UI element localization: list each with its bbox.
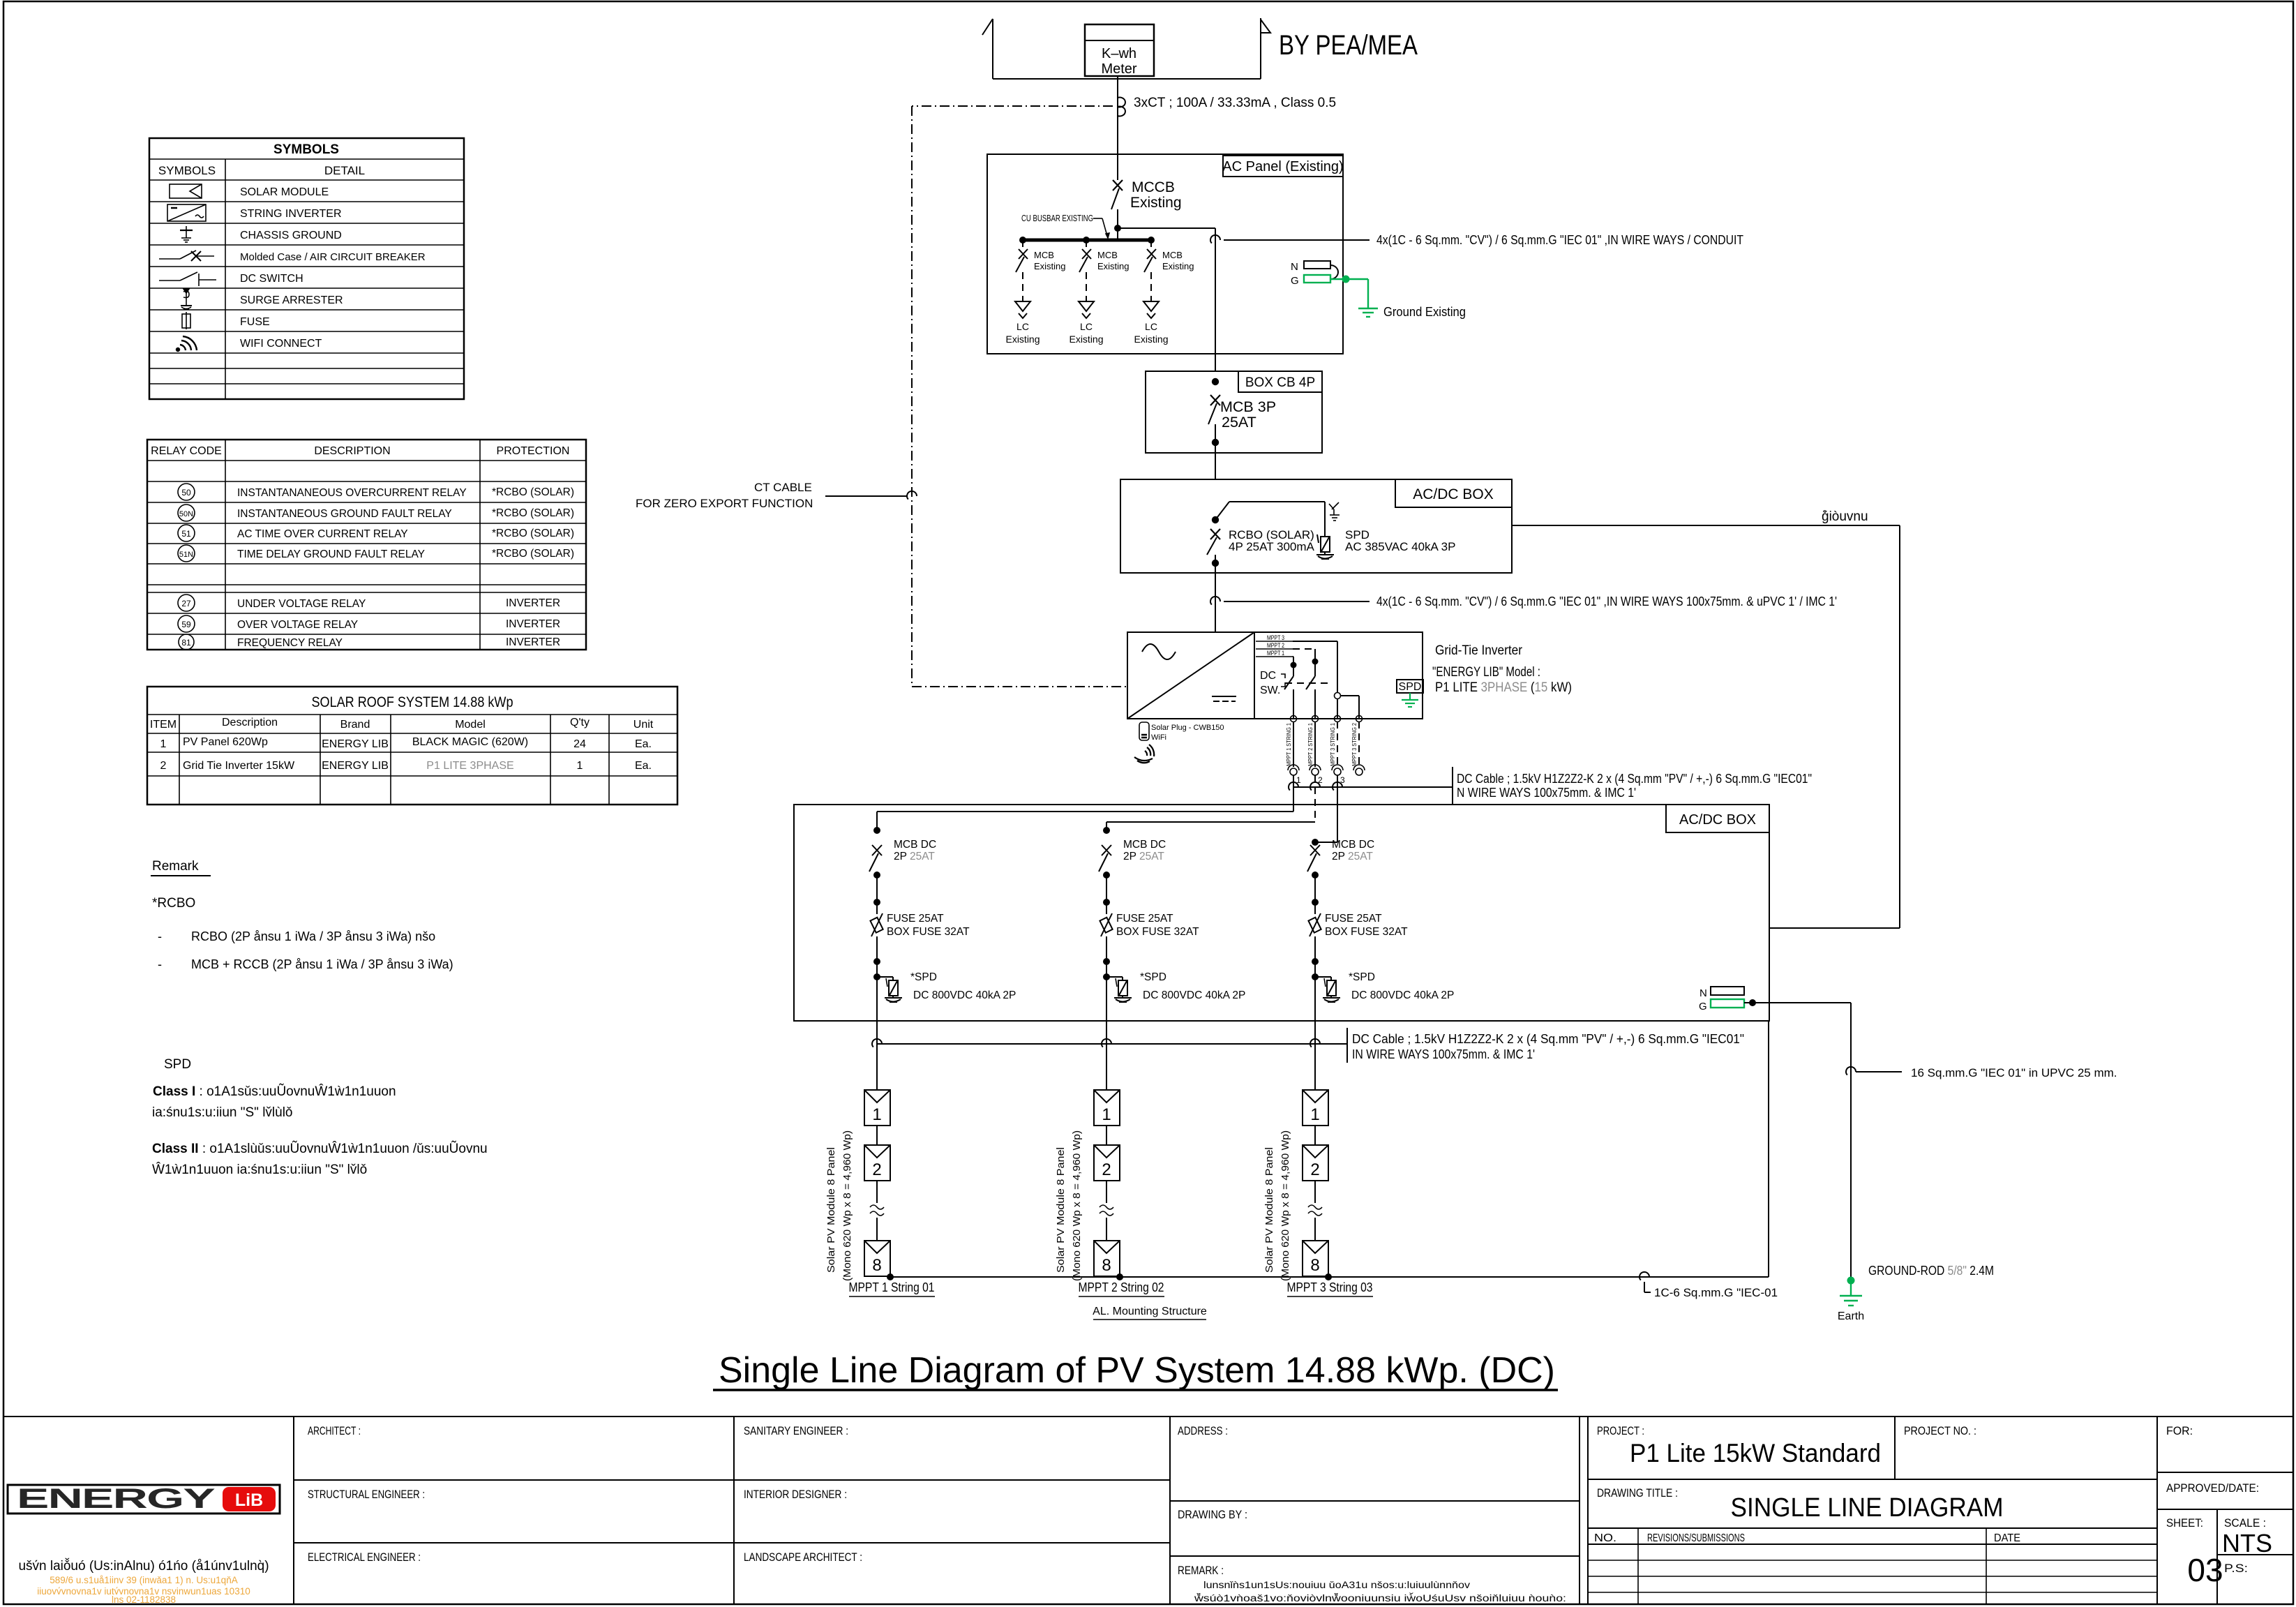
svg-text:G: G bbox=[1699, 1001, 1707, 1012]
module 8 bbox=[864, 1241, 890, 1276]
inverter diagonal bbox=[1127, 632, 1254, 719]
svg-text:INVERTER: INVERTER bbox=[506, 597, 560, 609]
svg-text:MPPT 3 STRING 1: MPPT 3 STRING 1 bbox=[1329, 723, 1336, 766]
svg-text:MCB DC: MCB DC bbox=[894, 839, 936, 851]
svg-text:SURGE ARRESTER: SURGE ARRESTER bbox=[240, 294, 343, 306]
svg-text:AC/DC BOX: AC/DC BOX bbox=[1413, 486, 1494, 502]
svg-text:G: G bbox=[1291, 275, 1299, 287]
svg-text:RCBO (2P ånsu 1 iWa / 3P åns: RCBO (2P ånsu 1 iWa / 3P ånsu 3 iWa) n… bbox=[191, 929, 435, 943]
svg-text:8: 8 bbox=[872, 1256, 881, 1275]
fuse FUSE 25AT / BOX FUSE 32AT string 3 bbox=[1310, 913, 1321, 936]
svg-text:DC 800VDC 40kA 2P: DC 800VDC 40kA 2P bbox=[1143, 989, 1245, 1001]
green node on panel edge bbox=[1342, 276, 1350, 283]
wire bbox=[876, 875, 878, 902]
svg-text:MPPT 1 String 01: MPPT 1 String 01 bbox=[849, 1280, 935, 1294]
svg-text:Ea.: Ea. bbox=[635, 738, 652, 750]
inverter SPD ground (green) bbox=[1402, 693, 1418, 707]
svg-text:*SPD: *SPD bbox=[1349, 971, 1375, 983]
svg-text:24: 24 bbox=[573, 738, 586, 750]
svg-text:DATE: DATE bbox=[1994, 1532, 2020, 1544]
svg-text:Solar PV Module 8 Panel: Solar PV Module 8 Panel bbox=[825, 1147, 837, 1273]
svg-text:25AT: 25AT bbox=[1222, 414, 1256, 431]
svg-text:ITEM: ITEM bbox=[150, 719, 177, 731]
svg-text:Existing: Existing bbox=[1097, 261, 1130, 271]
surge arrester *SPD DC 800VDC 40kA 2P string 3 bbox=[1312, 973, 1319, 980]
svg-text:ẘ̌súò1vǹoaš1vo:ňoviòvln: ẘ̌súò1vǹoaš1vo:ňoviòvlnẘ̌ooniuun… bbox=[1194, 1592, 1566, 1604]
svg-text:Existing: Existing bbox=[1162, 261, 1194, 271]
node below MCB DC string 1 bbox=[873, 872, 880, 879]
MPPT3 internal wire bbox=[1293, 641, 1337, 719]
svg-text:MPPT 1 STRING 1: MPPT 1 STRING 1 bbox=[1285, 723, 1292, 766]
inverter bottom terminals bbox=[1291, 716, 1297, 722]
MPPT1 internal wire bbox=[1284, 657, 1297, 719]
CT cable leader bbox=[825, 491, 917, 500]
BOX CB 4P box bbox=[1146, 371, 1322, 453]
svg-text:MCB DC: MCB DC bbox=[1332, 839, 1374, 851]
PV earth label leader bbox=[1640, 1272, 1651, 1292]
string field wiring 3 bbox=[1315, 775, 1337, 844]
svg-text:INSTANTANANEOUS OVERCURRENT RE: INSTANTANANEOUS OVERCURRENT RELAY bbox=[237, 487, 467, 499]
svg-text:DRAWING TITLE :: DRAWING TITLE : bbox=[1597, 1486, 1678, 1500]
symbol: surge arrester icon bbox=[181, 289, 192, 309]
svg-text:SHEET:: SHEET: bbox=[2166, 1516, 2203, 1530]
svg-text:AL. Mounting Structure: AL. Mounting Structure bbox=[1093, 1306, 1207, 1317]
svg-text:-: - bbox=[158, 929, 162, 943]
svg-text:UNDER VOLTAGE RELAY: UNDER VOLTAGE RELAY bbox=[237, 598, 366, 610]
svg-text:Existing: Existing bbox=[1069, 334, 1103, 345]
svg-text:OVER VOLTAGE RELAY: OVER VOLTAGE RELAY bbox=[237, 619, 358, 631]
svg-text:STRING INVERTER: STRING INVERTER bbox=[240, 208, 342, 220]
svg-text:LiB: LiB bbox=[235, 1490, 263, 1510]
svg-text:Brand: Brand bbox=[340, 719, 370, 731]
svg-text:BOX FUSE 32AT: BOX FUSE 32AT bbox=[1116, 926, 1199, 938]
svg-text:(Mono 620 Wp x 8 = 4,960 Wp): (Mono 620 Wp x 8 = 4,960 Wp) bbox=[841, 1130, 853, 1281]
svg-text:DC Cable ; 1.5kV H1Z2Z2-K 2 x: DC Cable ; 1.5kV H1Z2Z2-K 2 x (4 Sq.mm "… bbox=[1457, 772, 1812, 786]
svg-text:LC: LC bbox=[1080, 321, 1093, 332]
svg-text:2: 2 bbox=[872, 1160, 881, 1179]
svg-text:4x(1C - 6 Sq.mm. "CV") / 6 Sq.: 4x(1C - 6 Sq.mm. "CV") / 6 Sq.mm.G "IEC … bbox=[1376, 233, 1743, 247]
N-G bond arc bbox=[1330, 265, 1338, 279]
svg-text:ušv́n laiǒ̌uó (Us:inAlnu) o: ušv́n laiǒ̌uó (Us:inAlnu) ó1ńo (å1… bbox=[18, 1558, 269, 1574]
wire: AC/DC box1 right to DC box (same cabinet) bbox=[1512, 525, 1900, 928]
inverter SPD box bbox=[1397, 680, 1423, 693]
node above fuse string 1 bbox=[873, 899, 880, 906]
svg-text:NTS: NTS bbox=[2222, 1529, 2272, 1557]
svg-text:16 Sq.mm.G "IEC 01" in UPVC 25: 16 Sq.mm.G "IEC 01" in UPVC 25 mm. bbox=[1911, 1066, 2117, 1079]
svg-text:*RCBO (SOLAR): *RCBO (SOLAR) bbox=[492, 486, 574, 498]
wire into string 1 bbox=[876, 1021, 878, 1090]
svg-text:MCB DC: MCB DC bbox=[1123, 839, 1166, 851]
svg-text:DETAIL: DETAIL bbox=[324, 164, 365, 177]
svg-text:FUSE: FUSE bbox=[240, 316, 270, 328]
MCB existing branch 1 bbox=[1005, 240, 1065, 345]
relay 59 bbox=[178, 615, 195, 632]
surge arrester *SPD DC 800VDC 40kA 2P string 2 bbox=[1103, 973, 1110, 980]
svg-text:59: 59 bbox=[181, 620, 191, 629]
svg-text:LC: LC bbox=[1145, 321, 1157, 332]
string field wiring 1 bbox=[877, 775, 1293, 830]
AC panel box bbox=[987, 154, 1343, 354]
symbol: fuse icon bbox=[182, 312, 190, 329]
svg-text:SYMBOLS: SYMBOLS bbox=[158, 164, 216, 177]
svg-text:SPD: SPD bbox=[164, 1057, 191, 1072]
svg-text:MPPT 3 STRING 2: MPPT 3 STRING 2 bbox=[1351, 723, 1358, 766]
svg-text:BOX FUSE 32AT: BOX FUSE 32AT bbox=[1325, 926, 1408, 938]
svg-text:K–wh: K–wh bbox=[1102, 46, 1136, 61]
string field wiring 2 bbox=[1106, 775, 1315, 830]
breaker MCB DC 2P 25AT string 1 bbox=[872, 845, 882, 855]
svg-text:8: 8 bbox=[1310, 1256, 1319, 1275]
svg-text:RELAY CODE: RELAY CODE bbox=[151, 445, 222, 457]
svg-text:Existing: Existing bbox=[1134, 334, 1168, 345]
node in bbox=[1212, 378, 1219, 385]
ground existing wire (green) bbox=[1330, 279, 1378, 317]
relay 50 bbox=[178, 484, 195, 500]
symbol: molded case / air circuit breaker icon bbox=[159, 251, 214, 261]
svg-text:03: 03 bbox=[2187, 1552, 2223, 1588]
symbol: string inverter icon bbox=[167, 204, 206, 221]
svg-text:(Mono 620 Wp x 8 = 4,960 Wp): (Mono 620 Wp x 8 = 4,960 Wp) bbox=[1071, 1130, 1083, 1281]
svg-text:REVISIONS/SUBMISSIONS: REVISIONS/SUBMISSIONS bbox=[1647, 1532, 1745, 1544]
svg-text:Existing: Existing bbox=[1005, 334, 1040, 345]
svg-text:WIFI CONNECT: WIFI CONNECT bbox=[240, 338, 322, 350]
svg-text:SINGLE LINE DIAGRAM: SINGLE LINE DIAGRAM bbox=[1731, 1493, 2004, 1523]
svg-text:ARCHITECT :: ARCHITECT : bbox=[308, 1424, 361, 1437]
svg-text:lns 02-1182838: lns 02-1182838 bbox=[112, 1594, 176, 1605]
G terminal block (DC box) bbox=[1699, 999, 1744, 1012]
svg-text:2P 25AT: 2P 25AT bbox=[894, 851, 935, 862]
svg-text:CHASSIS GROUND: CHASSIS GROUND bbox=[240, 230, 342, 241]
svg-text:2P 25AT: 2P 25AT bbox=[1332, 851, 1373, 862]
svg-text:Solar PV Module 8 Panel: Solar PV Module 8 Panel bbox=[1263, 1147, 1275, 1273]
svg-text:81: 81 bbox=[181, 638, 191, 648]
wire: RCBO down to inverter bbox=[1215, 563, 1216, 632]
inverter AC sine bbox=[1142, 644, 1176, 659]
N terminal block (DC box) bbox=[1700, 987, 1744, 999]
svg-text:INTERIOR DESIGNER :: INTERIOR DESIGNER : bbox=[744, 1488, 847, 1501]
svg-text:Single Line Diagram of PV Syst: Single Line Diagram of PV System 14.88 k… bbox=[719, 1350, 1555, 1391]
svg-text:8: 8 bbox=[1102, 1256, 1111, 1275]
breaker MCCB existing bbox=[1111, 180, 1123, 240]
symbol: DC switch icon bbox=[159, 272, 216, 286]
flag arrow left (supply riser) bbox=[982, 19, 993, 79]
svg-text:2: 2 bbox=[160, 760, 167, 772]
node below fuse string 1 bbox=[873, 958, 880, 965]
svg-text:ia:śnu1s:u:iiun "S" lv̌lùlǒ: ia:śnu1s:u:iiun "S" lv̌lùlǒ bbox=[152, 1105, 293, 1120]
module 2 bbox=[864, 1145, 890, 1181]
svg-text:FOR ZERO EXPORT FUNCTION: FOR ZERO EXPORT FUNCTION bbox=[636, 497, 813, 510]
earth node (green) bbox=[1847, 1277, 1855, 1285]
title block grid bbox=[3, 1417, 2293, 1604]
svg-text:1: 1 bbox=[1310, 1105, 1319, 1124]
node: string 3 feed junction bbox=[1312, 839, 1319, 846]
svg-text:2: 2 bbox=[1102, 1160, 1111, 1179]
svg-text:IN WIRE WAYS 100x75mm. & IMC 1: IN WIRE WAYS 100x75mm. & IMC 1' bbox=[1352, 1047, 1535, 1061]
svg-text:SOLAR ROOF SYSTEM 14.88 kWp: SOLAR ROOF SYSTEM 14.88 kWp bbox=[312, 694, 513, 710]
MCB existing branch 2 bbox=[1069, 240, 1129, 345]
svg-text:Ŵ1ẁ1n1uuon ia:śnu1s:u:iiun: Ŵ1ẁ1n1uuon ia:śnu1s:u:iiun "S" lv̌lǒ bbox=[152, 1162, 367, 1177]
symbol: solar module icon bbox=[170, 184, 202, 198]
svg-text:FUSE 25AT: FUSE 25AT bbox=[1325, 913, 1382, 925]
svg-text:PROJECT NO. :: PROJECT NO. : bbox=[1904, 1424, 1976, 1437]
symbol: wifi connect icon bbox=[177, 336, 197, 351]
solar roof system table grid bbox=[147, 687, 677, 805]
svg-text:Remark: Remark bbox=[152, 859, 199, 874]
svg-text:INSTANTANEOUS GROUND FAULT REL: INSTANTANEOUS GROUND FAULT RELAY bbox=[237, 508, 452, 520]
wire: MCCB to BOX CB 4P feeder bbox=[1118, 228, 1215, 371]
svg-text:Earth: Earth bbox=[1838, 1310, 1864, 1322]
svg-text:Class I : o1A1sǔs:uuŨovnuŴ1: Class I : o1A1sǔs:uuŨovnuŴ1ẁ1n1uuon bbox=[153, 1084, 396, 1099]
svg-text:MCB: MCB bbox=[1097, 250, 1118, 260]
svg-text:CT CABLE: CT CABLE bbox=[754, 481, 812, 494]
node at RCBO input bbox=[1212, 516, 1219, 523]
svg-text:MPPT 1: MPPT 1 bbox=[1267, 650, 1284, 657]
MPPT2 internal wire bbox=[1293, 649, 1319, 719]
svg-text:P1 Lite 15kW Standard: P1 Lite 15kW Standard bbox=[1630, 1439, 1881, 1467]
svg-text:Solar PV Module 8 Panel: Solar PV Module 8 Panel bbox=[1055, 1147, 1067, 1273]
svg-text:MPPT 2: MPPT 2 bbox=[1267, 642, 1284, 649]
svg-text:BOX FUSE 32AT: BOX FUSE 32AT bbox=[887, 926, 970, 938]
CU busbar (thick) bbox=[1023, 239, 1151, 242]
svg-text:P1 LITE 3PHASE (15 kW): P1 LITE 3PHASE (15 kW) bbox=[1435, 680, 1572, 695]
AC/DC box 1 bbox=[1120, 479, 1512, 573]
svg-text:(Mono 620 Wp x 8 = 4,960 Wp): (Mono 620 Wp x 8 = 4,960 Wp) bbox=[1280, 1130, 1291, 1281]
svg-text:Q'ty: Q'ty bbox=[570, 717, 590, 728]
RCBO (SOLAR) breaker bbox=[1207, 529, 1220, 563]
N terminal block bbox=[1291, 261, 1330, 273]
svg-text:N WIRE WAYS 100x75mm. & IMC 1': N WIRE WAYS 100x75mm. & IMC 1' bbox=[1457, 786, 1636, 800]
node on G wire bbox=[1749, 999, 1756, 1006]
svg-text:1: 1 bbox=[160, 738, 167, 750]
AC/DC box 2 bbox=[794, 805, 1769, 1021]
ENERGY LIB logo bbox=[8, 1483, 280, 1514]
pigtail MPPT3 STRING 2 (spare) bbox=[1351, 722, 1365, 775]
surge arrester *SPD DC 800VDC 40kA 2P string 1 bbox=[873, 973, 880, 980]
svg-text:BY PEA/MEA: BY PEA/MEA bbox=[1279, 30, 1418, 61]
svg-text:ǧ̊iòuvnu: ǧ̊iòuvnu bbox=[1822, 509, 1868, 524]
DC switch linkage bbox=[1281, 674, 1329, 687]
svg-text:STRUCTURAL ENGINEER :: STRUCTURAL ENGINEER : bbox=[308, 1488, 425, 1501]
svg-text:lunsnǐǹs1un1sUs:nouiuu ǔoA3: lunsnǐǹs1un1sUs:nouiuu ǔoA31u nšos:u… bbox=[1203, 1580, 1470, 1590]
svg-text:Meter: Meter bbox=[1101, 61, 1136, 77]
CT (current transformer) bbox=[1118, 98, 1125, 117]
svg-text:1C-6 Sq.mm.G "IEC-01: 1C-6 Sq.mm.G "IEC-01 bbox=[1654, 1286, 1778, 1299]
svg-text:MPPT 3: MPPT 3 bbox=[1267, 634, 1284, 641]
svg-text:FUSE 25AT: FUSE 25AT bbox=[887, 913, 944, 925]
feeder label leader 1 bbox=[1210, 235, 1370, 244]
break squiggle bbox=[870, 1205, 884, 1209]
svg-text:LC: LC bbox=[1016, 321, 1029, 332]
svg-text:2P 25AT: 2P 25AT bbox=[1123, 851, 1164, 862]
svg-text:3xCT ; 100A / 33.33mA , Class: 3xCT ; 100A / 33.33mA , Class 0.5 bbox=[1134, 96, 1336, 110]
svg-text:N: N bbox=[1700, 987, 1707, 999]
ground conductor label leader bbox=[1846, 1067, 1902, 1075]
svg-text:MPPT 2 STRING 1: MPPT 2 STRING 1 bbox=[1307, 723, 1314, 766]
svg-text:Existing: Existing bbox=[1034, 261, 1066, 271]
svg-text:27: 27 bbox=[181, 599, 191, 608]
svg-text:PROTECTION: PROTECTION bbox=[497, 445, 570, 457]
pigtail MPPT3 STRING 1 bbox=[1329, 722, 1345, 785]
wire: meter down to CT bbox=[1117, 76, 1118, 180]
svg-text:MCCB: MCCB bbox=[1132, 179, 1175, 195]
MCB existing branch 3 bbox=[1134, 240, 1194, 345]
earth symbol (green) bbox=[1840, 1280, 1862, 1306]
svg-text:Molded Case / AIR CIRCUIT BRE: Molded Case / AIR CIRCUIT BREAKER bbox=[240, 251, 426, 263]
svg-text:DC SWITCH: DC SWITCH bbox=[240, 273, 303, 285]
svg-text:*SPD: *SPD bbox=[1140, 971, 1166, 983]
svg-text:Solar Plug - CWB150: Solar Plug - CWB150 bbox=[1151, 724, 1224, 732]
relay code table grid bbox=[147, 440, 586, 650]
svg-text:50N: 50N bbox=[179, 510, 193, 518]
DC string 3 protections bbox=[1307, 839, 1454, 1021]
svg-text:DC Cable ; 1.5kV H1Z2Z2-K 2 x: DC Cable ; 1.5kV H1Z2Z2-K 2 x (4 Sq.mm "… bbox=[1352, 1031, 1744, 1046]
svg-text:4x(1C - 6 Sq.mm. "CV") / 6 Sq.: 4x(1C - 6 Sq.mm. "CV") / 6 Sq.mm.G "IEC … bbox=[1376, 595, 1837, 608]
DC string 1 protections bbox=[869, 827, 1016, 1021]
svg-text:GROUND-ROD 5/8" 2.4M: GROUND-ROD 5/8" 2.4M bbox=[1868, 1264, 1994, 1278]
svg-text:MCB: MCB bbox=[1034, 250, 1054, 260]
svg-text:*SPD: *SPD bbox=[910, 971, 937, 983]
feeder label leader 2 bbox=[1210, 597, 1370, 605]
relay 81 bbox=[179, 634, 194, 650]
fuse FUSE 25AT / BOX FUSE 32AT string 2 bbox=[1101, 913, 1112, 936]
MPPT3 string2 tap bbox=[1335, 693, 1341, 699]
svg-text:50: 50 bbox=[181, 488, 191, 498]
svg-text:REMARK :: REMARK : bbox=[1178, 1564, 1224, 1577]
svg-text:DESCRIPTION: DESCRIPTION bbox=[314, 445, 390, 457]
svg-text:AC 385VAC 40kA 3P: AC 385VAC 40kA 3P bbox=[1345, 540, 1455, 553]
busbar node dots bbox=[1019, 237, 1026, 244]
ground wire to earth rod bbox=[1744, 1003, 1851, 1280]
svg-text:AC/DC BOX: AC/DC BOX bbox=[1679, 812, 1756, 828]
svg-text:MCB 3P: MCB 3P bbox=[1220, 398, 1276, 415]
node below MCB DC string 2 bbox=[1103, 872, 1110, 879]
svg-text:N: N bbox=[1291, 261, 1298, 273]
flag arrow right (supply riser) bbox=[1261, 18, 1270, 79]
wire: horizontal grid tie line bbox=[993, 78, 1261, 80]
svg-text:2: 2 bbox=[1310, 1160, 1319, 1179]
svg-text:DC: DC bbox=[1260, 670, 1276, 682]
svg-text:SCALE :: SCALE : bbox=[2224, 1516, 2266, 1530]
pigtail MPPT1 STRING 1 bbox=[1285, 722, 1301, 785]
svg-text:FUSE 25AT: FUSE 25AT bbox=[1116, 913, 1173, 925]
svg-text:P1 LITE 3PHASE: P1 LITE 3PHASE bbox=[426, 760, 513, 772]
AC/DC box 1 label box bbox=[1395, 479, 1512, 507]
svg-text:SANITARY ENGINEER :: SANITARY ENGINEER : bbox=[744, 1424, 848, 1437]
AC panel label box bbox=[1222, 156, 1343, 177]
svg-text:MPPT 2 String 02: MPPT 2 String 02 bbox=[1079, 1280, 1164, 1294]
relay 50N bbox=[178, 504, 195, 521]
SPD varistor (AC) bbox=[1316, 535, 1334, 559]
svg-text:INVERTER: INVERTER bbox=[506, 636, 560, 648]
svg-text:589/6 u.s1uå1iinv 39 (inwǎa1: 589/6 u.s1uå1iinv 39 (inwǎa1 1) n. Us:… bbox=[50, 1575, 237, 1585]
K-wh Meter box bbox=[1085, 24, 1154, 77]
inverter box bbox=[1127, 632, 1423, 719]
svg-text:ADDRESS :: ADDRESS : bbox=[1178, 1424, 1228, 1437]
svg-text:1: 1 bbox=[577, 760, 583, 772]
svg-text:PV Panel 620Wp: PV Panel 620Wp bbox=[183, 736, 268, 748]
svg-text:Description: Description bbox=[222, 717, 278, 728]
svg-text:Existing: Existing bbox=[1130, 195, 1182, 211]
svg-text:SYMBOLS: SYMBOLS bbox=[273, 142, 339, 157]
svg-text:MCB: MCB bbox=[1162, 250, 1183, 260]
CT cable dash-dot run bbox=[912, 106, 1128, 687]
svg-text:Ea.: Ea. bbox=[635, 760, 652, 772]
relay 27 bbox=[178, 595, 195, 611]
svg-text:*RCBO (SOLAR): *RCBO (SOLAR) bbox=[492, 548, 574, 560]
svg-text:1: 1 bbox=[872, 1105, 881, 1124]
svg-text:Grid Tie Inverter 15kW: Grid Tie Inverter 15kW bbox=[183, 760, 295, 772]
svg-text:4P 25AT 300mA: 4P 25AT 300mA bbox=[1229, 540, 1315, 553]
relay 51 bbox=[178, 525, 195, 541]
svg-text:SOLAR MODULE: SOLAR MODULE bbox=[240, 186, 329, 198]
svg-text:-: - bbox=[158, 957, 162, 971]
svg-text:Model: Model bbox=[455, 719, 486, 731]
SPD branch wire bbox=[1215, 502, 1325, 537]
DC cable label bottom leader bbox=[872, 1028, 1347, 1063]
string return wire bbox=[890, 1021, 1769, 1277]
node out bbox=[1212, 439, 1219, 446]
node bbox=[873, 827, 880, 834]
node below MCB DC string 3 bbox=[1312, 872, 1319, 879]
svg-text:CU BUSBAR EXISTING: CU BUSBAR EXISTING bbox=[1021, 213, 1093, 223]
svg-text:BOX CB 4P: BOX CB 4P bbox=[1245, 375, 1315, 390]
G terminal block bbox=[1291, 275, 1330, 287]
svg-text:*RCBO: *RCBO bbox=[152, 896, 195, 911]
svg-text:APPROVED/DATE:: APPROVED/DATE: bbox=[2166, 1481, 2259, 1495]
symbols table grid bbox=[149, 138, 464, 399]
svg-text:ENERGY LIB: ENERGY LIB bbox=[322, 738, 389, 750]
node at RCBO output bbox=[1212, 560, 1219, 567]
svg-text:LANDSCAPE ARCHITECT :: LANDSCAPE ARCHITECT : bbox=[744, 1550, 862, 1564]
svg-text:AC TIME OVER CURRENT RELAY: AC TIME OVER CURRENT RELAY bbox=[237, 528, 408, 540]
breaker MCB DC 2P 25AT string 2 bbox=[1102, 845, 1111, 855]
svg-text:ELECTRICAL ENGINEER :: ELECTRICAL ENGINEER : bbox=[308, 1550, 421, 1564]
junction node at MCCB output bbox=[1114, 225, 1121, 232]
svg-text:MCB + RCCB (2P ånsu 1 iWa / 3: MCB + RCCB (2P ånsu 1 iWa / 3P ånsu 3 … bbox=[191, 957, 453, 971]
svg-text:MPPT 3 String 03: MPPT 3 String 03 bbox=[1287, 1280, 1373, 1294]
svg-text:*RCBO (SOLAR): *RCBO (SOLAR) bbox=[492, 507, 574, 519]
svg-text:Class II : o1A1slùǔs:uuŨovn: Class II : o1A1slùǔs:uuŨovnuŴ1ẁ1n1u… bbox=[152, 1141, 488, 1156]
string junction node bbox=[887, 1273, 894, 1280]
svg-text:NO.: NO. bbox=[1594, 1532, 1616, 1544]
svg-text:DC 800VDC 40kA 2P: DC 800VDC 40kA 2P bbox=[1351, 989, 1454, 1001]
svg-text:P.S:: P.S: bbox=[2224, 1562, 2248, 1575]
wifi solar plug icon bbox=[1134, 722, 1154, 763]
wire bbox=[876, 962, 878, 1021]
breaker MCB 3P 25AT bbox=[1208, 395, 1220, 442]
svg-text:AC Panel (Existing): AC Panel (Existing) bbox=[1222, 159, 1343, 174]
svg-text:ENERGY: ENERGY bbox=[17, 1483, 216, 1514]
svg-text:DRAWING BY :: DRAWING BY : bbox=[1178, 1508, 1247, 1521]
svg-text:*RCBO (SOLAR): *RCBO (SOLAR) bbox=[492, 528, 574, 539]
pigtail MPPT2 STRING 1 bbox=[1307, 722, 1323, 785]
svg-text:INVERTER: INVERTER bbox=[506, 618, 560, 630]
svg-text:ENERGY LIB: ENERGY LIB bbox=[322, 760, 389, 772]
SPD disconnector mark bbox=[1329, 502, 1340, 521]
symbol: chassis ground icon bbox=[180, 226, 193, 242]
svg-text:1: 1 bbox=[1102, 1105, 1111, 1124]
relay 51N bbox=[178, 545, 195, 562]
DC cable label top leader bbox=[1289, 767, 1453, 804]
svg-text:51N: 51N bbox=[179, 551, 193, 559]
svg-text:Unit: Unit bbox=[633, 719, 654, 731]
BOX CB 4P label box bbox=[1238, 371, 1322, 392]
svg-text:BLACK MAGIC (620W): BLACK MAGIC (620W) bbox=[412, 736, 528, 748]
module 1 bbox=[864, 1090, 890, 1126]
inverter divider bbox=[1254, 632, 1255, 719]
svg-text:Grid-Tie Inverter: Grid-Tie Inverter bbox=[1435, 643, 1523, 658]
svg-text:"ENERGY LIB" Model :: "ENERGY LIB" Model : bbox=[1432, 665, 1540, 680]
